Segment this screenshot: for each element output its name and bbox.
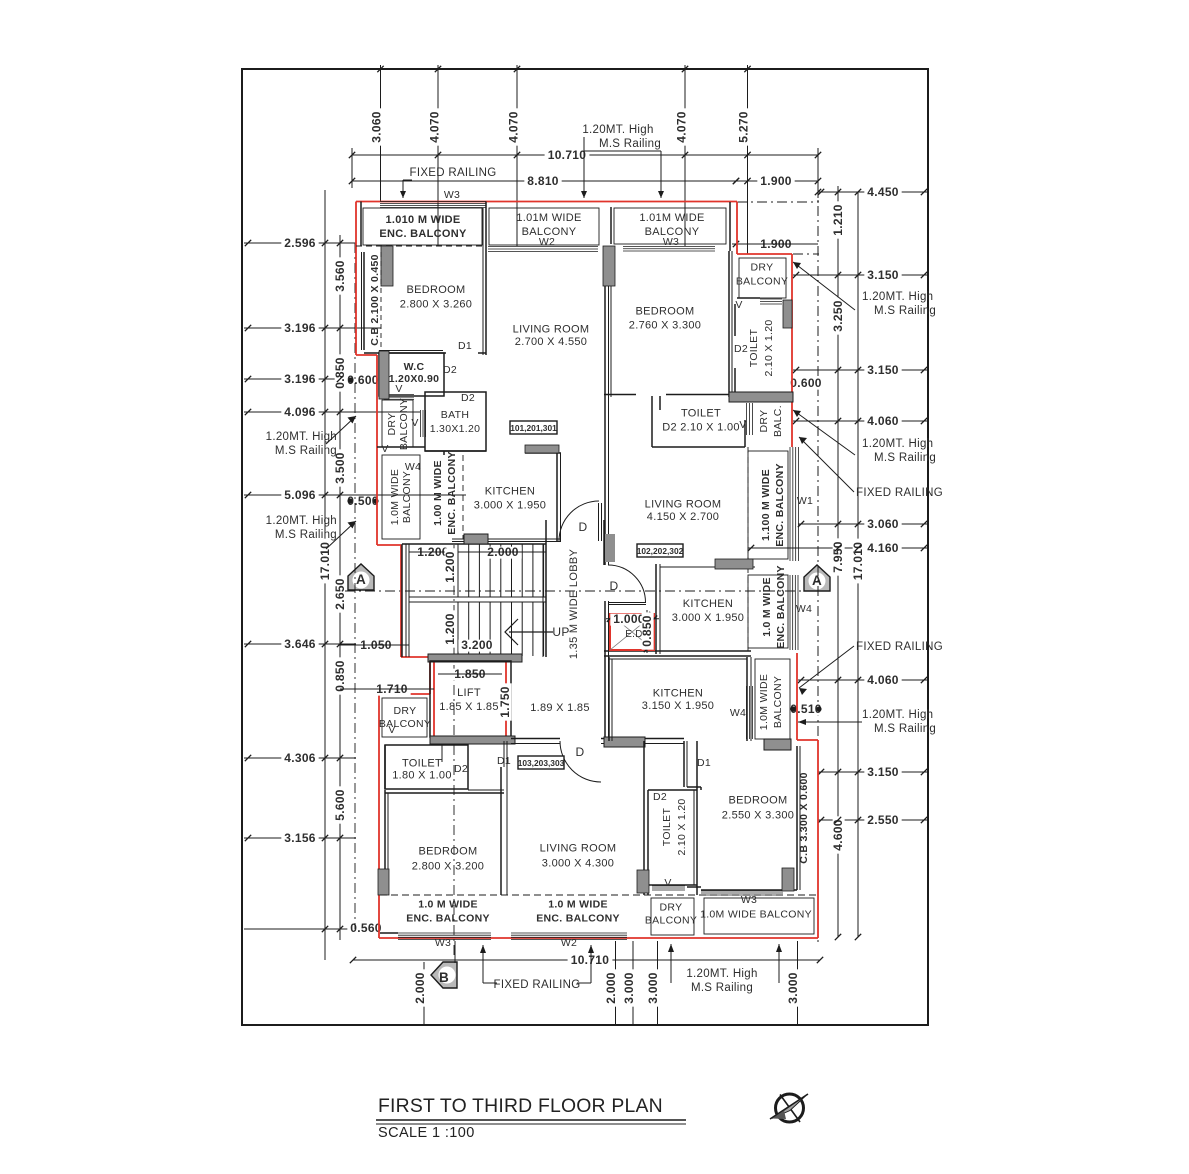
svg-text:3.060: 3.060: [867, 517, 899, 531]
svg-text:2.596: 2.596: [284, 236, 316, 250]
svg-text:5.600: 5.600: [333, 789, 347, 821]
svg-text:8.810: 8.810: [527, 174, 559, 188]
svg-text:C.B 2.100 X 0.450: C.B 2.100 X 0.450: [369, 254, 381, 346]
svg-text:ENC. BALCONY: ENC. BALCONY: [536, 913, 620, 925]
svg-text:W3: W3: [741, 894, 757, 906]
svg-text:W4: W4: [796, 603, 812, 615]
svg-text:LIVING ROOM: LIVING ROOM: [540, 843, 617, 855]
svg-text:BEDROOM: BEDROOM: [636, 306, 695, 318]
svg-text:4.160: 4.160: [867, 541, 899, 555]
svg-text:BALCONY: BALCONY: [736, 276, 788, 288]
svg-text:D: D: [579, 520, 588, 534]
svg-text:D: D: [610, 579, 619, 593]
svg-text:0.850: 0.850: [640, 615, 654, 647]
svg-text:M.S Railing: M.S Railing: [874, 305, 936, 317]
svg-text:D2: D2: [653, 791, 667, 803]
svg-text:3.560: 3.560: [333, 260, 347, 292]
svg-text:17.010: 17.010: [318, 542, 332, 581]
svg-text:M.S Railing: M.S Railing: [691, 982, 753, 994]
svg-text:1.900: 1.900: [760, 174, 792, 188]
svg-text:M.S Railing: M.S Railing: [874, 723, 936, 735]
svg-text:2.10 X 1.20: 2.10 X 1.20: [763, 319, 775, 376]
svg-text:SCALE 1 :100: SCALE 1 :100: [378, 1125, 475, 1141]
svg-text:M.S Railing: M.S Railing: [275, 529, 337, 541]
svg-text:ENC. BALCONY: ENC. BALCONY: [379, 228, 467, 240]
svg-text:3.000: 3.000: [622, 972, 636, 1004]
svg-text:FIXED RAILING: FIXED RAILING: [856, 487, 943, 499]
svg-text:M.S Railing: M.S Railing: [275, 445, 337, 457]
svg-text:1.20MT. High: 1.20MT. High: [686, 968, 757, 980]
svg-text:3.000 X 1.950: 3.000 X 1.950: [474, 500, 546, 512]
svg-text:3.196: 3.196: [284, 372, 316, 386]
svg-text:1.010 M WIDE: 1.010 M WIDE: [385, 214, 460, 226]
svg-text:BALCONY: BALCONY: [398, 398, 410, 450]
svg-text:D2: D2: [734, 343, 748, 355]
svg-text:D1: D1: [458, 340, 472, 352]
svg-text:BEDROOM: BEDROOM: [407, 284, 466, 296]
svg-text:3.200: 3.200: [461, 638, 493, 652]
svg-text:5.270: 5.270: [737, 111, 751, 143]
svg-text:1.20MT. High: 1.20MT. High: [862, 709, 933, 721]
svg-text:1.00 M WIDE: 1.00 M WIDE: [432, 460, 444, 526]
svg-text:BALCONY: BALCONY: [645, 915, 697, 927]
svg-text:DRY: DRY: [386, 413, 398, 436]
svg-text:1.20MT. High: 1.20MT. High: [266, 431, 337, 443]
svg-text:3.000 X 4.300: 3.000 X 4.300: [542, 858, 614, 870]
svg-text:1.210: 1.210: [831, 204, 845, 236]
svg-text:1.30X1.20: 1.30X1.20: [430, 423, 481, 435]
svg-text:W.C: W.C: [404, 361, 425, 373]
svg-text:2.800 X 3.260: 2.800 X 3.260: [400, 299, 472, 311]
svg-text:FIRST TO THIRD FLOOR PLAN: FIRST TO THIRD FLOOR PLAN: [378, 1095, 663, 1117]
svg-text:4.450: 4.450: [867, 185, 899, 199]
svg-text:2.550 X 3.300: 2.550 X 3.300: [722, 810, 794, 822]
svg-text:V: V: [664, 877, 671, 889]
svg-text:1.0 M WIDE: 1.0 M WIDE: [548, 899, 608, 911]
svg-text:4.600: 4.600: [831, 819, 845, 851]
svg-text:1.85 X 1.85: 1.85 X 1.85: [439, 701, 499, 713]
svg-text:W2: W2: [561, 937, 577, 949]
svg-text:3.250: 3.250: [831, 300, 845, 332]
svg-text:1.200: 1.200: [443, 551, 457, 583]
svg-text:2.000: 2.000: [604, 972, 618, 1004]
svg-text:V: V: [411, 417, 418, 429]
svg-text:ENC. BALCONY: ENC. BALCONY: [774, 463, 786, 547]
svg-text:D2: D2: [443, 364, 457, 376]
svg-text:2.10 X 1.20: 2.10 X 1.20: [676, 798, 688, 855]
svg-text:W3: W3: [444, 189, 460, 201]
svg-text:D1: D1: [497, 755, 511, 767]
svg-text:4.060: 4.060: [867, 414, 899, 428]
svg-text:102,202,302: 102,202,302: [637, 546, 684, 556]
svg-text:V: V: [739, 419, 746, 431]
svg-text:W3: W3: [663, 236, 679, 248]
svg-text:V: V: [381, 443, 388, 455]
svg-text:1.20MT. High: 1.20MT. High: [266, 515, 337, 527]
svg-text:3.150 X 1.950: 3.150 X 1.950: [642, 700, 714, 712]
svg-text:1.01M WIDE: 1.01M WIDE: [639, 212, 704, 224]
svg-text:ENC. BALCONY: ENC. BALCONY: [775, 565, 787, 649]
svg-text:ENC. BALCONY: ENC. BALCONY: [446, 451, 458, 535]
svg-text:1.0M WIDE: 1.0M WIDE: [389, 469, 401, 525]
svg-text:BALC.: BALC.: [772, 405, 784, 437]
svg-text:1.89 X 1.85: 1.89 X 1.85: [530, 702, 590, 714]
svg-text:D2 2.10 X 1.00: D2 2.10 X 1.00: [662, 422, 740, 434]
svg-text:3.150: 3.150: [867, 363, 899, 377]
svg-text:103,203,303: 103,203,303: [518, 758, 565, 768]
svg-text:3.150: 3.150: [867, 765, 899, 779]
svg-text:1.0 M WIDE: 1.0 M WIDE: [761, 577, 773, 637]
svg-text:A: A: [356, 572, 366, 587]
svg-text:4.150 X 2.700: 4.150 X 2.700: [647, 511, 719, 523]
svg-text:V: V: [735, 299, 742, 311]
svg-text:3.196: 3.196: [284, 321, 316, 335]
svg-text:1.750: 1.750: [498, 686, 512, 718]
svg-text:3.000 X 1.950: 3.000 X 1.950: [672, 612, 744, 624]
svg-text:TOILET: TOILET: [681, 408, 721, 420]
svg-text:C.B 3.300 X 0.600: C.B 3.300 X 0.600: [798, 772, 810, 864]
svg-text:0.850: 0.850: [333, 660, 347, 692]
svg-text:4.060: 4.060: [867, 673, 899, 687]
svg-text:2.550: 2.550: [867, 813, 899, 827]
svg-text:101,201,301: 101,201,301: [510, 423, 557, 433]
svg-text:D1: D1: [697, 757, 711, 769]
svg-text:DRY: DRY: [660, 902, 683, 914]
svg-text:4.306: 4.306: [284, 751, 316, 765]
svg-text:BEDROOM: BEDROOM: [729, 795, 788, 807]
svg-text:V: V: [388, 724, 395, 736]
svg-text:4.070: 4.070: [675, 111, 689, 143]
svg-text:BATH: BATH: [441, 409, 469, 421]
svg-text:W1: W1: [797, 495, 813, 507]
svg-text:BALCONY: BALCONY: [379, 718, 431, 730]
svg-text:LIVING ROOM: LIVING ROOM: [645, 499, 722, 511]
svg-text:1.0M WIDE BALCONY: 1.0M WIDE BALCONY: [700, 909, 812, 921]
svg-text:3.150: 3.150: [867, 268, 899, 282]
svg-text:1.20MT. High: 1.20MT. High: [862, 291, 933, 303]
svg-text:4.096: 4.096: [284, 405, 316, 419]
svg-text:B: B: [439, 970, 449, 985]
svg-text:10.710: 10.710: [548, 148, 587, 162]
svg-text:2.000: 2.000: [413, 972, 427, 1004]
svg-text:1.20MT. High: 1.20MT. High: [862, 438, 933, 450]
svg-text:W4: W4: [730, 707, 746, 719]
svg-text:TOILET: TOILET: [748, 329, 760, 368]
svg-text:FIXED RAILING: FIXED RAILING: [856, 641, 943, 653]
svg-text:4.070: 4.070: [507, 111, 521, 143]
svg-text:1.200: 1.200: [443, 613, 457, 645]
svg-text:LIVING ROOM: LIVING ROOM: [513, 324, 590, 336]
svg-text:TOILET: TOILET: [402, 758, 442, 770]
svg-text:3.000: 3.000: [786, 972, 800, 1004]
svg-text:V: V: [395, 383, 402, 395]
svg-text:5.096: 5.096: [284, 488, 316, 502]
svg-text:BALCONY: BALCONY: [401, 471, 413, 523]
svg-text:M.S Railing: M.S Railing: [599, 138, 661, 150]
svg-text:1.0 M WIDE: 1.0 M WIDE: [418, 899, 478, 911]
svg-text:0.600: 0.600: [790, 376, 822, 390]
svg-text:3.060: 3.060: [370, 111, 384, 143]
svg-text:3.646: 3.646: [284, 637, 316, 651]
svg-text:KITCHEN: KITCHEN: [485, 486, 535, 498]
svg-text:1.80 X 1.00: 1.80 X 1.00: [392, 770, 452, 782]
svg-text:1.0M WIDE: 1.0M WIDE: [758, 674, 770, 730]
svg-text:D2: D2: [454, 763, 468, 775]
svg-text:4.070: 4.070: [428, 111, 442, 143]
svg-text:10.710: 10.710: [571, 953, 610, 967]
svg-text:ENC. BALCONY: ENC. BALCONY: [406, 913, 490, 925]
svg-text:W3: W3: [435, 937, 451, 949]
svg-text:FIXED RAILING: FIXED RAILING: [410, 167, 497, 179]
svg-text:W2: W2: [539, 236, 555, 248]
svg-text:LIFT: LIFT: [457, 687, 481, 699]
svg-text:A: A: [812, 573, 822, 588]
svg-text:1.01M WIDE: 1.01M WIDE: [516, 212, 581, 224]
svg-text:7.950: 7.950: [831, 541, 845, 573]
svg-text:DRY: DRY: [394, 705, 417, 717]
svg-text:KITCHEN: KITCHEN: [683, 598, 733, 610]
svg-text:DRY: DRY: [751, 262, 774, 274]
svg-text:BALCONY: BALCONY: [772, 676, 784, 728]
svg-text:2.800 X 3.200: 2.800 X 3.200: [412, 861, 484, 873]
svg-text:KITCHEN: KITCHEN: [653, 688, 703, 700]
svg-text:3.156: 3.156: [284, 831, 316, 845]
svg-text:3.000: 3.000: [646, 972, 660, 1004]
svg-text:DRY: DRY: [758, 410, 770, 433]
svg-text:M.S Railing: M.S Railing: [874, 452, 936, 464]
svg-text:2.760 X 3.300: 2.760 X 3.300: [629, 320, 701, 332]
svg-text:1.20MT. High: 1.20MT. High: [582, 124, 653, 136]
svg-text:TOILET: TOILET: [661, 808, 673, 847]
svg-text:2.650: 2.650: [333, 578, 347, 610]
svg-text:D2: D2: [461, 392, 475, 404]
svg-text:D: D: [576, 745, 585, 759]
svg-text:W4: W4: [405, 461, 421, 473]
svg-text:BEDROOM: BEDROOM: [419, 846, 478, 858]
svg-text:FIXED RAILING: FIXED RAILING: [494, 979, 581, 991]
svg-text:1.100 M WIDE: 1.100 M WIDE: [760, 469, 772, 541]
svg-text:2.700 X 4.550: 2.700 X 4.550: [515, 336, 587, 348]
svg-text:1.35 M WIDE LOBBY: 1.35 M WIDE LOBBY: [568, 549, 580, 660]
